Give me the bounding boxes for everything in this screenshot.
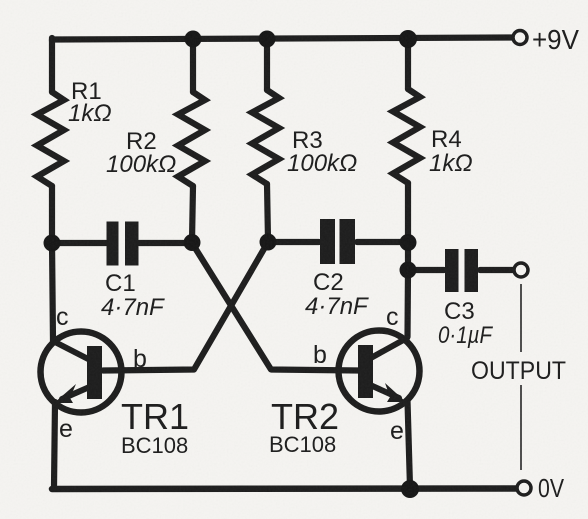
wire R1 bottom to node A <box>49 186 55 242</box>
node D (R4/C2) <box>400 234 417 251</box>
terminal OUTPUT <box>514 263 528 277</box>
wire C2 to node D <box>357 239 408 245</box>
wire R3 top lead <box>264 40 270 90</box>
wire node C to C2 <box>268 239 319 245</box>
wire C1 to node B <box>139 240 192 246</box>
wire R4 bottom to node D <box>405 183 411 242</box>
wire dashed output drop line <box>520 284 522 470</box>
node A (R1/C1/TR1 collector) <box>44 235 61 252</box>
terminal +9V <box>513 31 527 45</box>
capacitor C3 <box>445 249 478 292</box>
node top rail R2 junction <box>185 31 202 48</box>
capacitor C1 <box>107 222 139 266</box>
wire bottom 0V rail <box>52 485 517 492</box>
node E (C3 tap) <box>400 262 417 279</box>
wire TR1 emitter down to bottom rail <box>54 402 55 487</box>
transistor TR1 <box>41 332 122 413</box>
node top rail R3 junction <box>259 31 276 48</box>
terminal 0V <box>517 481 531 495</box>
resistor R2 <box>178 92 205 186</box>
wire node E to C3 <box>408 267 444 273</box>
wire R4 top lead <box>405 40 411 89</box>
node top rail R4 junction <box>399 30 417 48</box>
wire R2 bottom to node B <box>192 186 193 241</box>
wire top +9V rail <box>52 38 512 42</box>
resistor R3 <box>252 90 279 184</box>
node C (R3/C2/cross wire) <box>260 234 277 251</box>
node bottom rail TR2 emitter junction <box>401 480 419 498</box>
resistor R4 <box>393 89 420 183</box>
wire node C cross-coupling to TR1 base <box>103 242 268 371</box>
capacitor C2 <box>320 219 355 264</box>
wire left vertical (R1 column top lead) <box>49 38 55 92</box>
wire C3 to output terminal <box>480 267 513 273</box>
transistor TR2 <box>339 331 420 412</box>
resistor R1 <box>37 92 64 186</box>
wire R2 top lead <box>190 40 196 92</box>
wire TR2 emitter down to bottom rail <box>408 401 411 487</box>
wire node A down to TR1 collector <box>52 242 53 341</box>
wire node D down to node E <box>405 242 411 270</box>
wire node B cross-coupling to TR2 base <box>192 243 359 371</box>
node B (R2/C1/cross wire) <box>184 234 201 251</box>
wire node E down to TR2 collector <box>404 270 411 337</box>
wire node A to C1 <box>52 240 106 246</box>
wire R3 bottom to node C <box>267 184 268 240</box>
